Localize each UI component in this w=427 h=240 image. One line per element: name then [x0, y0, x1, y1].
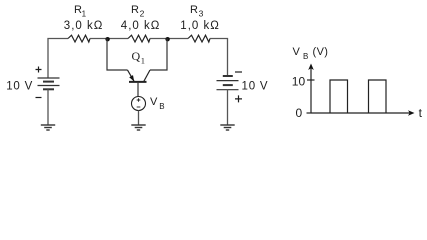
- battery V2 minus sign: [235, 71, 242, 73]
- battery V1 minus sign: [36, 97, 42, 99]
- wire R1 to node A: [90, 38, 128, 40]
- svg-text:R: R: [131, 4, 139, 16]
- battery V2 plus sign: [235, 95, 242, 102]
- wire battery V1 to ground: [47, 89, 49, 125]
- wire R2 to node B: [150, 38, 188, 40]
- svg-text:1,0 kΩ: 1,0 kΩ: [180, 20, 220, 32]
- wire R3 to battery V2 minus terminal: [210, 39, 228, 77]
- wire top-left: battery V1 plus terminal up and right to R1: [48, 39, 68, 79]
- svg-text:0: 0: [296, 106, 303, 120]
- wire battery V2 to ground: [227, 90, 229, 125]
- svg-text:R: R: [190, 4, 198, 16]
- ground (below VB): [131, 125, 145, 130]
- transistor Q1 (PNP): [128, 70, 151, 96]
- ground (right): [220, 125, 234, 130]
- svg-text:10: 10: [292, 75, 306, 89]
- resistor R2: [128, 35, 150, 42]
- svg-text:1: 1: [82, 10, 87, 19]
- battery V1 plus sign: [36, 67, 42, 73]
- svg-text:3,0 kΩ: 3,0 kΩ: [64, 20, 104, 32]
- svg-text:V: V: [150, 96, 158, 108]
- svg-text:Q: Q: [132, 49, 141, 63]
- graph y-axis with arrow: [310, 67, 312, 114]
- graph waveform VB square pulses: [330, 80, 348, 113]
- graph x-axis with arrow: [311, 112, 412, 114]
- node A junction dot: [105, 37, 109, 41]
- ground (left): [41, 125, 55, 130]
- svg-text:4,0 kΩ: 4,0 kΩ: [121, 20, 161, 32]
- battery V1 (left, 10 V): [38, 78, 60, 89]
- svg-text:1: 1: [141, 56, 145, 66]
- svg-text:2: 2: [140, 9, 145, 19]
- resistor R3: [188, 35, 210, 42]
- svg-text:10 V: 10 V: [242, 81, 269, 93]
- svg-text:B: B: [159, 102, 164, 111]
- wire node A down to Q1 emitter: [107, 39, 128, 71]
- svg-text:(V): (V): [313, 46, 329, 58]
- graph tick 0: [307, 112, 312, 114]
- source VB (circle with plus top, minus bottom): [132, 97, 146, 111]
- wire source VB to ground: [138, 111, 140, 126]
- svg-text:10 V: 10 V: [6, 81, 33, 93]
- battery V2 (right, 10 V, reversed): [217, 76, 239, 90]
- svg-text:B: B: [303, 52, 308, 61]
- svg-text:3: 3: [199, 9, 204, 19]
- resistor R1: [68, 35, 90, 42]
- wire node B down to Q1 collector: [150, 39, 167, 71]
- graph tick 10: [307, 79, 315, 81]
- node B junction dot: [165, 37, 169, 41]
- svg-text:V: V: [293, 46, 301, 58]
